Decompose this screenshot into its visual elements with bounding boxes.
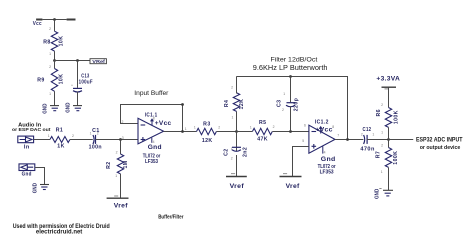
svg-text:1: 1 [49,92,51,96]
svg-text:2: 2 [273,125,275,129]
wire node A up to R4 [236,111,238,131]
wire VRef node to C13 [77,61,79,88]
resistor R6 [385,108,391,128]
pin Gnd IC1.1 [151,138,153,143]
op-amp U1 IC1.1 [138,118,164,144]
wire Vcc to R8 [54,20,56,32]
ground GND (below R9) [42,103,59,113]
op-amp U2 IC1.2 [309,125,335,153]
node C13 branch junction [76,59,79,62]
svg-text:C12: C12 [363,127,372,133]
wire R9 to ground [54,91,56,105]
svg-text:47K: 47K [257,137,268,143]
svg-text:12K: 12K [202,138,213,144]
node output junction [346,138,349,141]
svg-text:2: 2 [122,120,124,124]
svg-text:electricdruid.net: electricdruid.net [36,230,82,236]
svg-text:1: 1 [49,52,51,56]
svg-text:2: 2 [231,156,233,160]
svg-text:Filter 12dB/Oct: Filter 12dB/Oct [271,56,318,63]
resistor R1 [50,137,70,143]
svg-text:2: 2 [361,133,363,137]
svg-text:Gnd: Gnd [321,156,336,163]
svg-text:100uF: 100uF [79,80,93,86]
wire R7 to ground [388,168,390,191]
svg-text:1: 1 [185,127,187,131]
svg-text:3: 3 [122,136,124,140]
node A [235,130,238,133]
wire filter feedback top [237,77,348,140]
wire Vref to + input IC1.2 [293,147,309,177]
svg-text:1: 1 [381,170,383,174]
wire In to R1 [34,139,50,141]
wire Gnd connector to ground [35,168,45,185]
resistor R3 [197,128,217,134]
svg-text:8: 8 [332,125,334,129]
svg-text:5: 5 [302,139,304,143]
power pin +Vcc IC1.2 [319,126,323,134]
wire node C to output [389,139,414,141]
svg-text:2: 2 [282,108,284,112]
svg-text:2: 2 [231,86,233,90]
resistor R5 [252,128,272,134]
svg-text:In: In [24,145,30,151]
svg-text:C13: C13 [81,74,89,80]
svg-text:C3: C3 [276,100,282,107]
svg-text:R7: R7 [376,151,382,158]
wire C2 below node A [236,132,238,152]
svg-text:1: 1 [381,130,383,134]
node Vcc junction [53,18,56,21]
wire C2 to Vref [236,155,238,177]
svg-text:2: 2 [49,65,51,69]
svg-text:6: 6 [304,124,306,128]
svg-text:2n2: 2n2 [243,147,249,157]
svg-text:R8: R8 [43,39,50,45]
svg-text:10K: 10K [59,36,65,47]
wire R2 to Vref [120,174,122,198]
svg-text:100n: 100n [89,144,102,150]
wire R6 to node C [388,127,390,139]
wire C12 to node C [367,139,388,141]
svg-text:R9: R9 [37,77,44,83]
svg-text:2: 2 [381,143,383,147]
svg-text:Gnd: Gnd [22,172,32,178]
svg-text:GND: GND [375,189,381,199]
svg-text:10K: 10K [59,74,65,85]
svg-text:1: 1 [250,126,252,130]
wire R1 to C1 [70,139,93,141]
svg-text:LF353: LF353 [320,170,334,176]
wire IC1.1 out to R3 [164,131,197,133]
node R2 junction [119,138,122,141]
net flag VRef [90,59,106,64]
pin Gnd IC1.2 [322,146,324,153]
svg-text:2: 2 [381,103,383,107]
svg-text:1: 1 [194,126,196,130]
svg-text:IC1.1: IC1.1 [145,113,158,119]
svg-text:GND: GND [32,183,38,193]
capacitor C12 470n [364,135,368,144]
svg-text:or ESP DAC out: or ESP DAC out [12,127,51,133]
svg-text:+Vcc: +Vcc [315,127,333,134]
connector Gnd [19,164,35,171]
svg-text:+: + [71,84,73,88]
wire Vcc rail [42,19,66,21]
wire node to VRef flag [55,60,91,62]
power pin +Vcc IC1.1 [150,118,154,125]
svg-text:4: 4 [324,151,326,155]
supply Vref (under C2) [226,176,247,178]
wire R5 to node B [272,131,309,133]
wire C3 to node B [290,106,292,131]
supply Vref (under R2) [107,197,129,199]
node VRef junction [53,59,56,62]
svg-text:2: 2 [72,134,74,138]
wire feedback loop IC1.1 [121,105,183,132]
ground GND (connector) [32,183,49,193]
svg-text:470n: 470n [360,146,374,152]
resistor R4 [233,93,239,112]
svg-text:2: 2 [49,27,51,31]
svg-text:100K: 100K [393,110,399,124]
svg-text:R1: R1 [56,127,63,133]
svg-text:1: 1 [283,92,285,96]
svg-text:Buffer/Filter: Buffer/Filter [158,214,184,220]
resistor R9 [54,61,56,69]
svg-text:Gnd: Gnd [148,144,162,151]
svg-text:+3.3VA: +3.3VA [376,76,400,83]
svg-text:1: 1 [48,134,50,138]
wire C13 to ground [77,92,79,106]
svg-text:2: 2 [116,150,118,154]
wire node C to R7 [388,140,390,148]
svg-text:GND: GND [65,102,71,112]
svg-text:R6: R6 [376,109,382,116]
wire C1 to op-amp [96,139,139,141]
ground GND (below C13) [65,102,82,112]
capacitor C13 100uF [73,88,82,92]
svg-text:R2: R2 [106,161,112,168]
svg-text:C2: C2 [224,148,230,155]
node B [289,130,292,133]
node feedback junction [181,130,184,133]
svg-text:Vref: Vref [286,183,301,190]
ground GND (below R7) [375,189,393,200]
svg-text:Vref: Vref [230,183,245,190]
node C3 top junction [289,75,292,78]
svg-text:IC1.2: IC1.2 [315,120,329,126]
svg-text:1K: 1K [57,144,64,150]
svg-text:1: 1 [372,133,374,137]
svg-text:+Vcc: +Vcc [155,120,172,127]
svg-text:1: 1 [115,174,117,178]
wire IC1.2 out [335,139,363,141]
svg-text:Input Buffer: Input Buffer [134,90,168,97]
svg-text:1: 1 [232,116,234,120]
svg-text:9.6KHz LP Butterworth: 9.6KHz LP Butterworth [253,65,328,72]
svg-text:1M: 1M [123,160,129,168]
capacitor C1 100n [93,135,96,144]
svg-text:12K: 12K [239,99,245,110]
wire R4 to feedback top [236,76,238,93]
svg-text:or output device: or output device [420,145,461,151]
svg-text:ESP32 ADC INPUT: ESP32 ADC INPUT [416,138,463,144]
resistor R7 [385,148,391,168]
svg-text:Vref: Vref [114,203,129,210]
wire C3 from feedback top [290,76,292,102]
wire R3 to node A [216,131,236,133]
svg-text:R4: R4 [224,100,230,107]
svg-text:4: 4 [153,140,155,144]
node C [387,138,390,141]
resistor R2 [120,140,122,155]
svg-text:Vcc: Vcc [33,21,42,27]
svg-text:VRef: VRef [92,59,105,64]
supply Vref (under IC1.2 + input) [280,176,302,178]
svg-text:220p: 220p [294,98,300,111]
wire R8 to node [54,51,56,60]
svg-text:100K: 100K [393,151,399,165]
svg-text:C1: C1 [92,128,99,134]
svg-text:GND: GND [42,103,48,113]
svg-text:2: 2 [218,126,220,130]
svg-text:R3: R3 [203,122,210,128]
svg-text:LF353: LF353 [145,159,158,165]
connector In [18,136,34,143]
svg-text:R5: R5 [259,120,266,126]
power Vcc rail bars [36,19,75,21]
svg-text:7: 7 [337,134,339,138]
svg-text:8: 8 [153,117,155,121]
resistor R8 [51,31,57,51]
